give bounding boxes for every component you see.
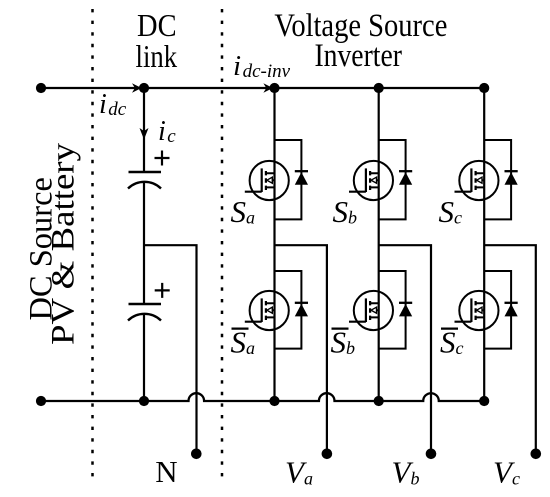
MOSFET Sa-bar [245,291,289,330]
node: leg A bottom [269,396,279,406]
node: bottom-left terminal [36,396,46,406]
wire: between capacitors [143,182,145,305]
wire: top DC bus [41,87,484,89]
node: leg C top [479,83,489,93]
wire: diode branch of Sc-bar [484,271,511,349]
wire: diode branch of Sc [484,140,511,219]
wire: capacitor branch upper [143,88,145,172]
svg-text:PV & Battery: PV & Battery [46,142,82,345]
MOSFET Sa [245,161,289,200]
node: Vc terminal [531,449,542,460]
node: top-left terminal [36,83,46,93]
capacitor C2 plus sign [155,283,170,298]
svg-text:N: N [155,454,177,489]
node: leg B top [374,83,384,93]
freewheeling diode of Sa-bar [295,302,308,304]
wire: capacitor branch lower [143,314,145,402]
node: Vb terminal [426,449,437,460]
node: DC-link capacitor top [139,83,149,93]
wire: diode branch of Sa [275,140,302,219]
node: Va terminal [322,449,333,460]
wire: phase A output tap [275,245,327,454]
svg-text:link: link [136,38,178,74]
MOSFET Sb [349,161,393,200]
MOSFET Sc [455,161,499,200]
label Sa-bar [232,328,249,330]
label Sb-bar [332,328,349,330]
wire: neutral tap N [144,245,197,454]
wire: phase C output tap [484,245,536,454]
node: capacitor bottom [139,396,149,406]
wire: diode branch of Sb [379,140,406,219]
wire: diode branch of Sa-bar [275,271,302,349]
freewheeling diode of Sc-bar [505,302,518,304]
wire: bottom DC bus with hops [41,393,484,401]
wire: leg C vertical [483,88,485,401]
current arrow i_c [140,128,149,140]
freewheeling diode of Sb-bar [399,302,412,304]
freewheeling diode of Sa [295,170,308,172]
current arrow i_dc [132,83,142,93]
capacitor C1 [129,171,162,173]
freewheeling diode of Sb [399,170,412,172]
freewheeling diode of Sc [505,170,518,172]
capacitor C1 plus sign [155,151,170,166]
wire: leg B vertical [378,88,380,401]
MOSFET Sc-bar [455,291,499,330]
label Sc-bar [441,328,458,330]
boundary dotted line 1 (DC source / DC link) [91,9,94,482]
node: leg B bottom [374,396,384,406]
current arrow i_dc-inv [263,83,273,93]
wire: diode branch of Sb-bar [379,271,406,349]
wire: phase B output tap [379,245,431,454]
wire: leg A vertical [273,88,275,401]
node: leg A top [269,83,279,93]
svg-text:Inverter: Inverter [314,38,402,74]
boundary dotted line 2 (DC link / inverter) [221,9,224,482]
capacitor C2 [129,303,162,305]
MOSFET Sb-bar [349,291,393,330]
node: leg C bottom [479,396,489,406]
node: N terminal [191,449,202,460]
